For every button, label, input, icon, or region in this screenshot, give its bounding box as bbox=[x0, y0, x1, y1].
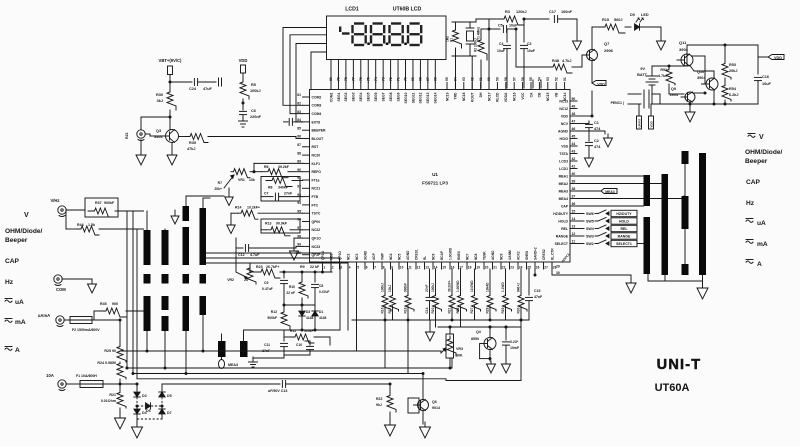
ground below C23 bbox=[505, 361, 507, 364]
wire MEA1 to switch bars bbox=[577, 175, 646, 177]
capacitor C11 27nF bbox=[283, 337, 285, 341]
svg-text:SW4: SW4 bbox=[586, 227, 594, 231]
svg-text:CAP: CAP bbox=[5, 258, 20, 265]
svg-text:0.01Ohm: 0.01Ohm bbox=[101, 399, 116, 403]
svg-text:R30: R30 bbox=[156, 93, 163, 97]
svg-text:474: 474 bbox=[594, 127, 601, 131]
transistor Q6 9014 bbox=[418, 400, 429, 411]
svg-text:SEG6: SEG6 bbox=[374, 92, 378, 101]
ground below R14 bbox=[230, 213, 232, 222]
svg-text:2k: 2k bbox=[244, 278, 248, 282]
svg-text:22: 22 bbox=[502, 266, 506, 270]
svg-text:C10: C10 bbox=[296, 343, 302, 347]
svg-text:R30: R30 bbox=[517, 307, 521, 313]
svg-text:10: 10 bbox=[400, 266, 404, 270]
svg-text:20: 20 bbox=[485, 266, 489, 270]
svg-text:SEG4: SEG4 bbox=[359, 92, 363, 101]
svg-text:40: 40 bbox=[572, 172, 576, 176]
svg-text:NC21: NC21 bbox=[312, 187, 321, 191]
op-amp U1 FS9721 LP3 body bbox=[310, 90, 571, 263]
svg-text:COM3: COM3 bbox=[312, 104, 322, 108]
LED D9 bbox=[625, 26, 631, 28]
svg-text:mA: mA bbox=[15, 319, 26, 326]
switches SW2-SW6 with function labels bbox=[577, 213, 584, 215]
svg-text:4.7kJ: 4.7kJ bbox=[562, 59, 572, 63]
svg-text:3904: 3904 bbox=[670, 93, 679, 97]
resistor R53 20k bbox=[724, 57, 726, 62]
svg-text:uF/50V C13: uF/50V C13 bbox=[268, 389, 287, 393]
svg-text:VDD: VDD bbox=[650, 120, 654, 127]
svg-text:BCAP: BCAP bbox=[440, 250, 444, 260]
svg-text:2906: 2906 bbox=[604, 48, 614, 53]
svg-text:NC17: NC17 bbox=[487, 92, 491, 101]
net tag VDD under Q7 bbox=[591, 61, 593, 84]
svg-text:SW3: SW3 bbox=[586, 235, 594, 239]
svg-text:UANM: UANM bbox=[508, 250, 512, 260]
transistor Q9 3904 bbox=[685, 92, 695, 102]
svg-text:900kF: 900kF bbox=[104, 201, 115, 205]
resistor R52 4.7k bbox=[668, 66, 670, 68]
svg-text:BEEPER: BEEPER bbox=[312, 129, 326, 133]
svg-text:3: 3 bbox=[340, 266, 342, 270]
svg-text:V: V bbox=[759, 134, 764, 141]
net tag VDD right bbox=[768, 55, 784, 60]
svg-text:11: 11 bbox=[572, 240, 576, 244]
svg-text:Beeper: Beeper bbox=[745, 158, 768, 165]
ground right of COM bbox=[91, 280, 93, 284]
ground arrow under ladder bbox=[429, 320, 431, 329]
LCD digit 1 bbox=[354, 22, 364, 24]
svg-text:R17: R17 bbox=[388, 307, 392, 313]
wire R21 to Q3 base bbox=[146, 133, 151, 135]
resistor R12 900k bbox=[283, 305, 285, 308]
diode D7 bbox=[159, 409, 165, 414]
svg-text:NC22: NC22 bbox=[312, 228, 321, 232]
wire bus step to ladder bbox=[446, 380, 521, 382]
svg-text:220nF: 220nF bbox=[250, 115, 262, 119]
wire MEA3 bars up bbox=[221, 334, 223, 341]
diode D4 bbox=[134, 409, 140, 414]
svg-text:C12: C12 bbox=[238, 253, 245, 257]
svg-text:37: 37 bbox=[572, 195, 576, 199]
svg-text:59: 59 bbox=[496, 77, 500, 81]
wire LCD segment lines to U1 top pins bbox=[330, 60, 332, 83]
svg-text:20k+: 20k+ bbox=[214, 187, 222, 191]
svg-text:NC12: NC12 bbox=[559, 107, 568, 111]
svg-text:KOUT: KOUT bbox=[471, 92, 475, 103]
LCD half-digit tick bbox=[339, 27, 341, 33]
svg-text:10uF: 10uF bbox=[497, 49, 505, 53]
svg-text:R2 200kJ: R2 200kJ bbox=[474, 38, 478, 52]
svg-text:MEA2: MEA2 bbox=[559, 182, 569, 186]
wire piezo stubs bbox=[638, 104, 640, 112]
resistor R45 900 bbox=[94, 310, 100, 312]
svg-text:SHEN: SHEN bbox=[525, 250, 529, 260]
wire uAmA rail down bbox=[119, 320, 121, 345]
switch wafer bars left group bbox=[144, 230, 151, 265]
svg-text:HCIG: HCIG bbox=[560, 137, 569, 141]
svg-text:R25 90: R25 90 bbox=[104, 349, 116, 353]
capacitor C3 10uF bbox=[523, 19, 525, 42]
svg-text:10.0WD: 10.0WD bbox=[470, 280, 474, 292]
svg-text:VDD: VDD bbox=[774, 56, 782, 60]
svg-text:10mF: 10mF bbox=[510, 346, 520, 350]
svg-text:9kJ: 9kJ bbox=[376, 403, 382, 407]
svg-text:TSTC: TSTC bbox=[312, 212, 321, 216]
svg-text:R9: R9 bbox=[300, 265, 305, 269]
svg-text:R8: R8 bbox=[268, 186, 273, 190]
wire MEA2 to bars bbox=[577, 183, 661, 185]
capacitor C2 474 bbox=[586, 141, 593, 143]
svg-text:15: 15 bbox=[442, 266, 446, 270]
right terminal function labels bbox=[748, 133, 755, 135]
capacitor C23 0.23uF bbox=[505, 327, 507, 340]
svg-text:QF2P: QF2P bbox=[312, 253, 322, 257]
svg-text:63: 63 bbox=[462, 77, 466, 81]
diode D5 bbox=[159, 392, 165, 397]
wire row 330 bbox=[284, 329, 340, 331]
wire C12 left elbow bbox=[235, 238, 237, 266]
svg-text:Hz: Hz bbox=[5, 279, 14, 286]
wire R53 to R54 bbox=[724, 78, 726, 84]
ground below R22 bbox=[389, 420, 391, 425]
LCD digit 3 bbox=[391, 22, 401, 24]
switch bars MEA3 pair bbox=[218, 341, 226, 357]
svg-text:SEG11: SEG11 bbox=[411, 92, 415, 103]
capacitor C17 100nF bbox=[553, 16, 555, 23]
capacitor on EXT8 pin bbox=[284, 121, 289, 123]
capacitor C24 47uF bbox=[170, 81, 192, 83]
svg-text:MEA3: MEA3 bbox=[605, 190, 615, 194]
svg-text:22 kF: 22 kF bbox=[310, 265, 320, 269]
svg-text:TRD: TRD bbox=[454, 92, 458, 100]
svg-text:R29: R29 bbox=[501, 307, 505, 313]
resistor R14 10.2k bbox=[231, 212, 238, 214]
svg-text:900: 900 bbox=[112, 302, 118, 306]
svg-text:HZ/DUTY: HZ/DUTY bbox=[553, 212, 568, 216]
svg-text:SEG2: SEG2 bbox=[344, 92, 348, 101]
ground arrow mid bbox=[294, 237, 303, 239]
wire bars col4 to pin rows bbox=[207, 252, 332, 254]
svg-text:SGND: SGND bbox=[363, 250, 367, 260]
svg-text:A: A bbox=[15, 347, 20, 354]
svg-text:SEG1: SEG1 bbox=[337, 92, 341, 101]
wire Q4 base bracket bbox=[479, 344, 481, 359]
wire R5 to C6 bbox=[242, 99, 244, 110]
potentiometer VR3 30K bbox=[446, 334, 454, 358]
svg-text:10uF: 10uF bbox=[509, 24, 518, 28]
svg-text:0.47uF: 0.47uF bbox=[262, 287, 273, 291]
wire bus L3 bbox=[133, 211, 423, 374]
svg-text:SW5: SW5 bbox=[586, 220, 594, 224]
svg-text:mA: mA bbox=[757, 241, 768, 248]
svg-text:D7: D7 bbox=[167, 411, 172, 415]
svg-text:VR2: VR2 bbox=[227, 278, 234, 282]
svg-text:65: 65 bbox=[445, 77, 449, 81]
ground below LED line bbox=[660, 27, 662, 37]
wire left bars risers bbox=[146, 211, 148, 230]
svg-text:SAND+2: SAND+2 bbox=[533, 247, 537, 260]
wire Q11 emitter to Q10 collector bbox=[690, 66, 694, 72]
svg-text:V: V bbox=[24, 212, 29, 219]
svg-text:NC19: NC19 bbox=[445, 92, 449, 101]
diode D1 4148 bbox=[314, 305, 316, 310]
svg-text:30: 30 bbox=[556, 271, 560, 275]
wire bridge bottom bbox=[136, 414, 138, 420]
svg-text:NC3: NC3 bbox=[355, 253, 359, 260]
svg-text:SELECT1: SELECT1 bbox=[616, 242, 632, 246]
resistor R25 90 and R24 0.9850 series bbox=[117, 345, 126, 362]
svg-text:VDD: VDD bbox=[239, 58, 248, 63]
svg-text:R11: R11 bbox=[290, 329, 296, 333]
svg-text:SEG13: SEG13 bbox=[426, 92, 430, 103]
svg-text:NC7: NC7 bbox=[465, 253, 469, 260]
svg-text:REL: REL bbox=[561, 227, 568, 231]
wire LCD left bracket COM2 bbox=[283, 28, 327, 106]
svg-text:R14: R14 bbox=[235, 206, 241, 210]
svg-text:HZ/DUTY: HZ/DUTY bbox=[616, 212, 632, 216]
resistor R30 3k bbox=[167, 88, 176, 110]
svg-text:UT60B LCD: UT60B LCD bbox=[393, 7, 422, 13]
svg-text:R44: R44 bbox=[77, 223, 84, 227]
svg-text:HOLD: HOLD bbox=[619, 219, 629, 223]
wire Q9 emitter to rail bbox=[689, 102, 691, 104]
wire ladder to lower nets bbox=[384, 320, 386, 368]
svg-text:D5: D5 bbox=[167, 394, 172, 398]
svg-text:MEA3: MEA3 bbox=[559, 189, 569, 193]
svg-text:96: 96 bbox=[297, 218, 301, 222]
svg-text:C6: C6 bbox=[251, 109, 256, 113]
capacitor C10 27nF bbox=[309, 341, 311, 345]
svg-text:R12: R12 bbox=[271, 310, 277, 314]
resistor R37 900k boxed bbox=[85, 198, 118, 217]
svg-text:C14: C14 bbox=[425, 307, 429, 313]
svg-text:100nF: 100nF bbox=[561, 10, 573, 14]
svg-text:C3: C3 bbox=[527, 42, 531, 46]
svg-text:10uF: 10uF bbox=[527, 49, 535, 53]
svg-text:47kJ: 47kJ bbox=[187, 147, 195, 151]
resistor R11 900k bbox=[283, 330, 285, 337]
svg-text:NC6: NC6 bbox=[431, 253, 435, 260]
svg-text:94: 94 bbox=[297, 201, 301, 205]
wire Q10 emitter down bbox=[713, 90, 715, 104]
svg-text:3kJ: 3kJ bbox=[157, 99, 163, 103]
svg-text:DH: DH bbox=[479, 92, 483, 97]
wire R21 top loop bbox=[140, 117, 142, 130]
svg-text:1.00WD: 1.00WD bbox=[456, 280, 460, 292]
capacitor C5 10uF bbox=[489, 28, 500, 30]
wire R30 to Q3 collector bbox=[169, 110, 171, 129]
wire Q4 collector up bbox=[489, 327, 491, 338]
svg-text:R15: R15 bbox=[602, 18, 609, 22]
svg-text:RST: RST bbox=[312, 145, 320, 149]
wire VDD pin to Q7 tag bbox=[577, 115, 592, 117]
fuse F2 1500mA/600V bbox=[70, 317, 92, 324]
svg-text:C9: C9 bbox=[264, 281, 268, 285]
wire COM to ground bbox=[62, 278, 92, 280]
transistor Q3 3904 bbox=[166, 130, 179, 143]
wire LCD left bracket COM3 bbox=[290, 35, 327, 114]
svg-text:87: 87 bbox=[297, 143, 301, 147]
svg-text:FTC: FTC bbox=[312, 203, 319, 207]
svg-text:43: 43 bbox=[572, 150, 576, 154]
svg-text:13: 13 bbox=[425, 266, 429, 270]
svg-text:LCD3: LCD3 bbox=[559, 159, 568, 163]
svg-text:R3: R3 bbox=[505, 10, 510, 14]
svg-text:10k: 10k bbox=[249, 178, 255, 182]
svg-text:27nF: 27nF bbox=[425, 285, 429, 292]
svg-text:C15: C15 bbox=[534, 289, 540, 293]
svg-text:6.2kJ: 6.2kJ bbox=[729, 93, 739, 97]
svg-text:26.7kF+: 26.7kF+ bbox=[266, 265, 279, 269]
svg-text:10uF: 10uF bbox=[762, 82, 772, 86]
svg-text:R53: R53 bbox=[729, 63, 736, 67]
svg-text:F1 10A/600H: F1 10A/600H bbox=[76, 374, 97, 378]
svg-text:AGND: AGND bbox=[491, 250, 495, 260]
svg-text:AGP: AGP bbox=[372, 252, 376, 260]
svg-text:VR1: VR1 bbox=[238, 178, 245, 182]
switch wafer bars right group bbox=[644, 175, 651, 206]
resistor R15 560 bbox=[599, 24, 625, 33]
capacitor C12 4.7uF bbox=[236, 247, 243, 249]
svg-text:RANGE: RANGE bbox=[556, 234, 569, 238]
resistor R44 1.5k bbox=[65, 210, 67, 229]
svg-text:1: 1 bbox=[323, 266, 325, 270]
svg-text:SEG12: SEG12 bbox=[419, 92, 423, 103]
capacitor C4 10uF bbox=[506, 29, 508, 42]
wire LCD left bracket COM4 bbox=[296, 44, 327, 122]
wire Q9 collector to Q10 bbox=[693, 92, 705, 94]
U1 bottom pins 1-28 with numbers and names bbox=[322, 262, 324, 269]
svg-text:R13: R13 bbox=[265, 222, 271, 226]
wire select chain down to ground bbox=[637, 243, 648, 245]
svg-text:Q7: Q7 bbox=[604, 41, 610, 46]
wire Q6 emitter down bbox=[422, 411, 424, 425]
svg-text:4148: 4148 bbox=[319, 316, 327, 320]
svg-text:42: 42 bbox=[572, 157, 576, 161]
wire right bars col3 link bbox=[684, 164, 686, 196]
svg-text:1MJ: 1MJ bbox=[446, 36, 450, 42]
svg-text:13: 13 bbox=[572, 225, 576, 229]
svg-text:R52: R52 bbox=[660, 68, 667, 72]
svg-text:5: 5 bbox=[357, 266, 359, 270]
svg-text:9014: 9014 bbox=[432, 406, 440, 410]
svg-text:C2: C2 bbox=[594, 139, 599, 143]
svg-text:C24: C24 bbox=[189, 87, 197, 91]
svg-text:C11: C11 bbox=[264, 343, 270, 347]
svg-text:R45: R45 bbox=[100, 302, 107, 306]
svg-text:R16: R16 bbox=[381, 307, 385, 313]
svg-text:FTB: FTB bbox=[312, 195, 319, 199]
svg-text:SELECT: SELECT bbox=[555, 242, 569, 246]
svg-text:15: 15 bbox=[572, 210, 576, 214]
wire battery to Q11 top rail bbox=[652, 65, 687, 67]
transistor Q10 3904 bbox=[706, 78, 718, 90]
capacitor C9 0.47uF bbox=[283, 272, 285, 278]
svg-text:22 nF: 22 nF bbox=[286, 291, 295, 295]
ground right of C17 bbox=[576, 19, 578, 36]
ground below right bars bbox=[702, 283, 704, 288]
svg-text:SEG3: SEG3 bbox=[352, 92, 356, 101]
svg-text:7: 7 bbox=[374, 266, 376, 270]
svg-text:48: 48 bbox=[572, 112, 576, 116]
resistor R21 0.01 shunt bbox=[117, 391, 126, 408]
resistor R8 340k boxed with C7 bbox=[261, 177, 300, 202]
svg-text:30K: 30K bbox=[456, 354, 463, 358]
svg-text:50: 50 bbox=[572, 97, 576, 101]
svg-text:SEG7: SEG7 bbox=[381, 92, 385, 101]
terminal V/Hz bbox=[58, 206, 66, 214]
capacitor C16 10uF bbox=[757, 57, 759, 74]
ground below R7 wiper bbox=[228, 188, 230, 194]
svg-text:92: 92 bbox=[297, 185, 301, 189]
svg-text:18: 18 bbox=[468, 266, 472, 270]
capacitor C24 termination bbox=[218, 78, 220, 86]
svg-text:OHM/Diode/: OHM/Diode/ bbox=[5, 228, 43, 235]
resistor R35 47k bbox=[179, 136, 187, 138]
svg-text:Q9: Q9 bbox=[671, 87, 676, 91]
resistor R54 6.2k bbox=[722, 84, 731, 101]
svg-text:4.7kJ: 4.7kJ bbox=[658, 74, 667, 78]
net tag MEA3 bbox=[577, 190, 601, 192]
wire Q6 feed bbox=[422, 374, 424, 400]
capacitor C1 474 bbox=[577, 123, 589, 125]
svg-text:27nF: 27nF bbox=[284, 192, 293, 196]
svg-text:VB: VB bbox=[555, 92, 559, 97]
net tag MEA3 oval bbox=[219, 360, 225, 369]
svg-text:4.7uF: 4.7uF bbox=[250, 253, 260, 257]
svg-text:2: 2 bbox=[332, 266, 334, 270]
terminal COM bbox=[54, 275, 62, 283]
svg-text:8: 8 bbox=[383, 266, 385, 270]
svg-text:OHM/Diode/: OHM/Diode/ bbox=[745, 149, 783, 156]
svg-text:MEA1: MEA1 bbox=[559, 174, 569, 178]
diode D3 bbox=[134, 392, 140, 397]
svg-text:39: 39 bbox=[572, 180, 576, 184]
terminal 10A bbox=[58, 380, 66, 388]
svg-text:R22: R22 bbox=[376, 397, 382, 401]
svg-text:COM: COM bbox=[56, 287, 66, 292]
svg-text:SEG10: SEG10 bbox=[404, 92, 408, 103]
svg-text:R7: R7 bbox=[218, 181, 222, 185]
resistor R1 1M in crystal loop bbox=[455, 22, 457, 26]
svg-text:4: 4 bbox=[349, 266, 351, 270]
svg-text:D3: D3 bbox=[142, 394, 147, 398]
wire right bars bottom rail bbox=[664, 275, 666, 281]
svg-text:39.2kF: 39.2kF bbox=[278, 165, 290, 169]
fuse F1 10A/600V bbox=[66, 383, 80, 385]
svg-text:36: 36 bbox=[572, 202, 576, 206]
diode D3b 4148 bbox=[301, 305, 303, 310]
svg-text:R18: R18 bbox=[404, 307, 408, 313]
svg-text:RLCD: RLCD bbox=[496, 92, 500, 102]
svg-text:NC9: NC9 bbox=[499, 253, 503, 260]
svg-text:120kJ: 120kJ bbox=[516, 10, 527, 14]
svg-text:51: 51 bbox=[563, 77, 567, 81]
wire V/Hz to R37 box bbox=[66, 209, 85, 211]
U1 right pins with numbers and names bbox=[570, 100, 577, 102]
capacitor C15 47nF bbox=[528, 269, 530, 295]
svg-text:0.23*: 0.23* bbox=[510, 340, 519, 344]
LCD digit 4 bbox=[410, 22, 420, 24]
wire bottom rail bias bbox=[652, 103, 758, 105]
wire uAmA through fuse F2 bbox=[64, 319, 70, 321]
svg-text:940+J: 940+J bbox=[517, 283, 521, 292]
wire CAP pin right bbox=[577, 205, 644, 207]
svg-text:38: 38 bbox=[572, 187, 576, 191]
svg-text:HOLD: HOLD bbox=[558, 219, 568, 223]
svg-text:R37: R37 bbox=[95, 201, 102, 205]
